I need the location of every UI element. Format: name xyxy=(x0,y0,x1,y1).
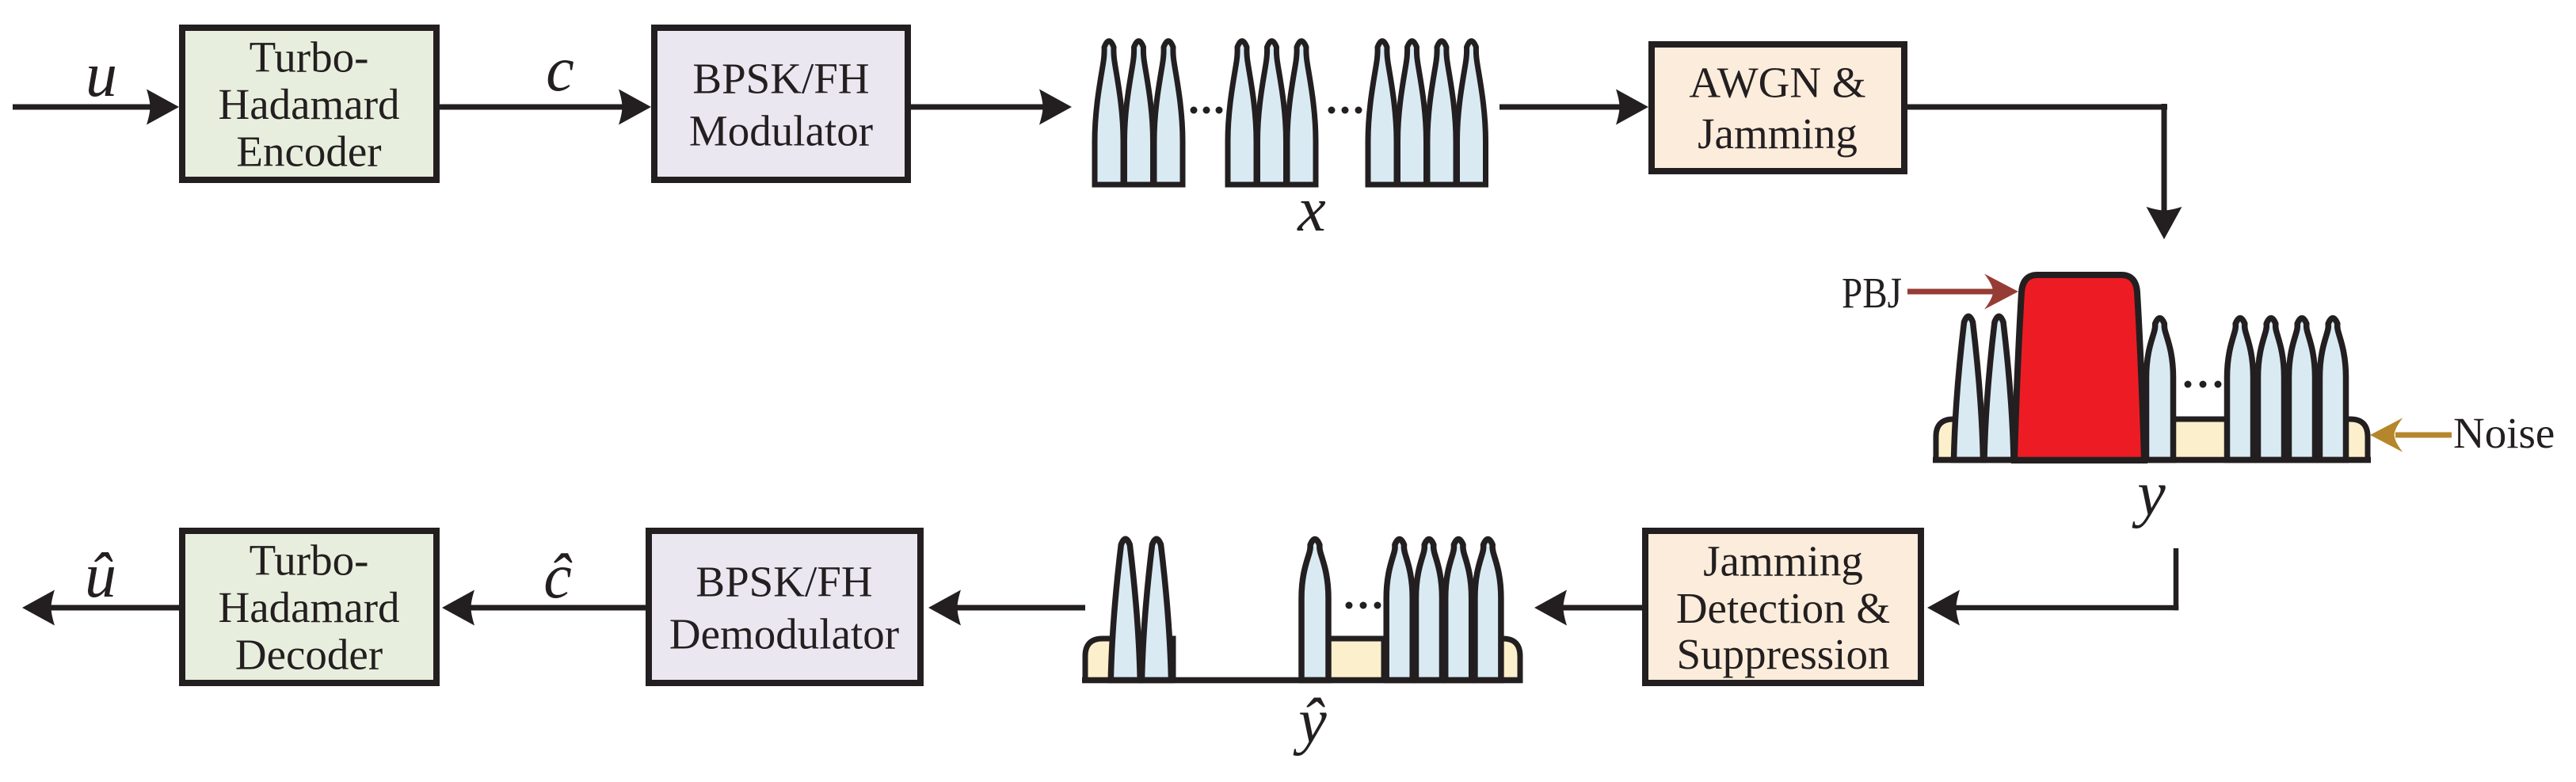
svg-text:Jamming: Jamming xyxy=(1703,537,1863,586)
svg-text:x: x xyxy=(1297,175,1326,245)
svg-text:Decoder: Decoder xyxy=(235,631,383,679)
svg-text:ŷ: ŷ xyxy=(1293,687,1327,757)
svg-text:u: u xyxy=(86,40,117,110)
svg-text:AWGN &: AWGN & xyxy=(1689,59,1865,107)
svg-text:c: c xyxy=(546,35,574,105)
svg-text:û: û xyxy=(85,541,116,611)
svg-text:Turbo-: Turbo- xyxy=(250,536,369,585)
svg-text:Hadamard: Hadamard xyxy=(218,80,399,128)
svg-text:Detection &: Detection & xyxy=(1676,584,1890,632)
svg-text:Turbo-: Turbo- xyxy=(250,33,369,82)
svg-text:ĉ: ĉ xyxy=(543,542,573,612)
svg-text:Encoder: Encoder xyxy=(236,128,381,176)
svg-text:Hadamard: Hadamard xyxy=(218,583,399,631)
svg-text:Modulator: Modulator xyxy=(689,107,873,155)
svg-text:Demodulator: Demodulator xyxy=(669,610,899,658)
svg-text:BPSK/FH: BPSK/FH xyxy=(695,558,872,606)
svg-text:BPSK/FH: BPSK/FH xyxy=(692,55,869,103)
svg-text:Jamming: Jamming xyxy=(1698,109,1858,158)
svg-text:PBJ: PBJ xyxy=(1842,269,1902,317)
svg-text:Suppression: Suppression xyxy=(1677,630,1890,678)
svg-text:y: y xyxy=(2132,460,2166,529)
svg-text:Noise: Noise xyxy=(2453,409,2555,457)
